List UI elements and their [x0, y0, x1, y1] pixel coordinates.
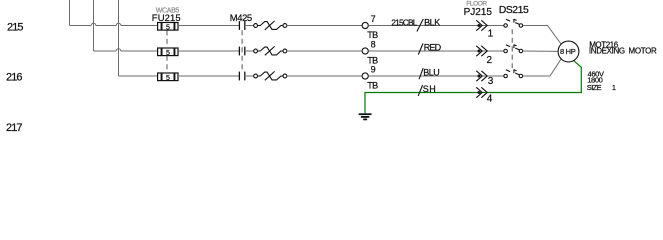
svg-text:TB: TB: [367, 80, 378, 90]
svg-text:INDEXING MOTOR: INDEXING MOTOR: [589, 46, 657, 55]
svg-text:SH: SH: [423, 84, 437, 94]
svg-text:1: 1: [488, 29, 494, 40]
svg-text:BLK: BLK: [424, 17, 440, 27]
svg-text:1: 1: [612, 83, 616, 92]
svg-text:M425: M425: [230, 13, 252, 24]
svg-text:FU215: FU215: [152, 13, 181, 24]
svg-text:2: 2: [487, 55, 493, 66]
svg-text:TB: TB: [367, 30, 378, 40]
svg-text:215: 215: [7, 21, 23, 33]
svg-text:BLU: BLU: [423, 67, 439, 77]
svg-text:215CBL: 215CBL: [391, 18, 417, 28]
svg-text:8: 8: [371, 40, 376, 50]
svg-text:SIZE: SIZE: [587, 83, 602, 92]
svg-text:DS215: DS215: [499, 4, 529, 16]
svg-text:217: 217: [6, 122, 22, 134]
svg-text:4: 4: [487, 93, 493, 104]
svg-text:PJ215: PJ215: [464, 7, 493, 18]
svg-text:8 HP: 8 HP: [560, 47, 576, 56]
svg-text:9: 9: [371, 65, 376, 75]
svg-text:3: 3: [488, 76, 494, 87]
svg-text:5: 5: [166, 24, 170, 31]
svg-text:RED: RED: [424, 42, 442, 52]
svg-text:216: 216: [6, 72, 22, 84]
svg-text:7: 7: [371, 14, 376, 24]
svg-text:5: 5: [166, 75, 170, 82]
